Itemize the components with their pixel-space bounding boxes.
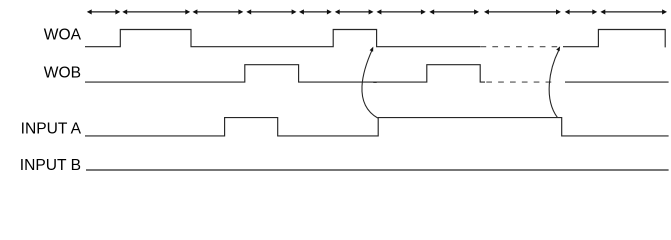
interval arrow 9 (484, 9, 561, 14)
waveform WOA solid part (85, 30, 480, 47)
interval arrow 6 (335, 9, 374, 14)
svg-text:WOA: WOA (44, 27, 82, 44)
svg-text:INPUT B: INPUT B (20, 157, 81, 172)
svg-text:WOB: WOB (44, 65, 81, 82)
interval arrow 5 (299, 9, 332, 14)
interval arrow 3 (193, 9, 244, 14)
waveform INPUT A (85, 118, 669, 136)
svg-text:INPUT A: INPUT A (21, 120, 82, 137)
interval arrow 7 (377, 9, 426, 14)
waveform INPUT B flat line (86, 169, 669, 171)
waveform WOB dashed delay segment (486, 81, 552, 83)
interval arrow 8 (429, 9, 479, 14)
interval arrow 1 (87, 9, 121, 14)
waveform WOB solid part (85, 65, 485, 82)
waveform WOB resumed after delay (565, 81, 669, 83)
junction tick on WOB low line (373, 82, 376, 83)
waveform WOA resumed after delay (563, 30, 665, 48)
causality arrow 1: INPUT A rise to WOA fall (362, 47, 378, 118)
interval arrow 2 (122, 9, 190, 14)
causality arrow 2: INPUT A fall to WOA delayed edge (549, 46, 560, 117)
interval arrow 4 (246, 9, 296, 14)
interval arrow 10 (565, 9, 598, 14)
waveform WOA dashed delay segment (481, 46, 558, 48)
interval arrow 11 (600, 9, 667, 14)
